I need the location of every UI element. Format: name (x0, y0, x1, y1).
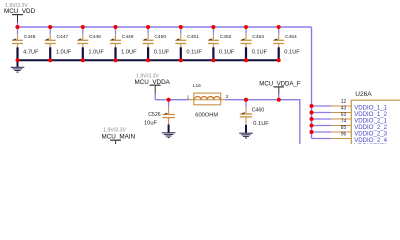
svg-text:85: 85 (341, 125, 347, 131)
svg-text:0.1UF: 0.1UF (252, 49, 268, 55)
svg-text:43: 43 (341, 106, 347, 112)
svg-text:96: 96 (341, 132, 347, 138)
svg-text:4.7UF: 4.7UF (23, 49, 39, 55)
svg-text:10uF: 10uF (144, 121, 157, 127)
svg-text:74: 74 (341, 119, 347, 125)
svg-text:C446: C446 (24, 34, 36, 40)
svg-text:C448: C448 (89, 34, 101, 40)
svg-text:1.0UF: 1.0UF (88, 49, 104, 55)
svg-text:0.1UF: 0.1UF (219, 49, 235, 55)
svg-text:C526: C526 (148, 112, 161, 118)
svg-text:C447: C447 (57, 34, 69, 40)
svg-text:C451: C451 (187, 34, 199, 40)
svg-text:VDDIO_3_1: VDDIO_3_1 (354, 143, 387, 144)
svg-text:MCU_MAIN: MCU_MAIN (102, 133, 136, 140)
svg-text:L16: L16 (193, 83, 201, 89)
svg-text:C452: C452 (220, 34, 232, 40)
svg-text:12: 12 (341, 99, 347, 105)
svg-text:0.1UF: 0.1UF (253, 121, 269, 127)
svg-text:1: 1 (187, 95, 190, 101)
svg-text:C460: C460 (252, 107, 265, 113)
svg-text:0.1UF: 0.1UF (154, 49, 170, 55)
svg-text:C450: C450 (154, 34, 166, 40)
svg-text:U26A: U26A (355, 91, 372, 98)
svg-text:C453: C453 (252, 34, 264, 40)
svg-text:1.0UF: 1.0UF (121, 49, 137, 55)
svg-text:0.1UF: 0.1UF (186, 49, 202, 55)
svg-text:2: 2 (226, 94, 229, 100)
svg-text:0.1UF: 0.1UF (284, 49, 300, 55)
svg-text:63: 63 (341, 112, 347, 118)
svg-text:1.0UF: 1.0UF (56, 49, 72, 55)
svg-text:C449: C449 (122, 34, 134, 40)
svg-text:600OHM: 600OHM (195, 113, 218, 119)
svg-text:C454: C454 (285, 34, 297, 40)
